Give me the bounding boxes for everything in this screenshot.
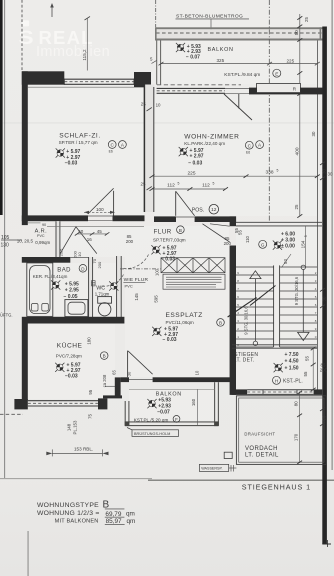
svg-text:53: 53 (283, 259, 288, 264)
svg-text:10: 10 (77, 252, 82, 257)
svg-text:45: 45 (97, 229, 103, 234)
svg-text:E6: E6 (246, 151, 250, 155)
svg-text:− 0.03: − 0.03 (163, 337, 177, 343)
svg-text:ST-BETON-BLUMENTROG: ST-BETON-BLUMENTROG (176, 13, 243, 19)
balcony floor dashed edge (157, 84, 241, 86)
svg-text:170: 170 (293, 433, 298, 441)
svg-text:E: E (275, 71, 278, 77)
svg-text:SP.TER/7,03qm: SP.TER/7,03qm (153, 238, 186, 243)
wc door swing dashed arc (100, 275, 124, 287)
svg-text:VORDACH: VORDACH (245, 446, 278, 452)
svg-text:KST.PL./5,20 qm: KST.PL./5,20 qm (134, 417, 169, 422)
balkon inner dim 160 (197, 390, 199, 426)
balcony door threshold (225, 87, 249, 89)
wie flur door swing dashed arc (124, 255, 149, 269)
küche east wall (115, 377, 121, 396)
svg-text:± 0.00: ± 0.00 (281, 243, 295, 249)
svg-text:BRÜSTUNGS-HOLM: BRÜSTUNGS-HOLM (134, 432, 170, 436)
svg-text:KST.-PL.: KST.-PL. (283, 379, 303, 385)
circle A wohnzimmer (256, 141, 264, 149)
svg-text:−0.03: −0.03 (65, 373, 78, 379)
svg-text:KST.PL./9.84 qm: KST.PL./9.84 qm (224, 72, 260, 78)
svg-text:30: 30 (311, 131, 316, 136)
svg-text:338: 338 (265, 169, 273, 175)
svg-text:E6: E6 (109, 150, 113, 154)
wall bedroom/wohnzimmer (double line) (144, 85, 154, 213)
staircase top wall (double thin) (236, 221, 322, 223)
circle A bedroom (119, 141, 127, 149)
svg-text:+ 1.50: + 1.50 (285, 365, 299, 371)
küche elevation diamond (55, 363, 64, 372)
svg-text:B: B (179, 228, 182, 233)
svg-text:PL.153: PL.153 (72, 420, 77, 434)
svg-text:100: 100 (96, 207, 104, 212)
scan fold faint line (0, 122, 334, 125)
flur dim line 50 45 (77, 233, 107, 235)
svg-text:ca 208: ca 208 (102, 374, 107, 387)
svg-text:10: 10 (156, 103, 161, 108)
svg-text:25: 25 (141, 182, 146, 187)
balcony door swing hatch (224, 94, 252, 120)
top balcony left parapet (156, 40, 158, 84)
lined fixture below cupboard (163, 274, 225, 289)
svg-text:1,71qm: 1,71qm (95, 292, 110, 297)
svg-text:95: 95 (88, 389, 93, 394)
bedroom top wall solid left part (22, 71, 65, 84)
bedroom bottom wall left of door (22, 215, 88, 221)
svg-text:90: 90 (42, 223, 46, 227)
essplatz south wall (121, 377, 129, 382)
small box left of vordach (224, 452, 232, 458)
svg-text:WOHN-ZIMMER: WOHN-ZIMMER (184, 134, 239, 141)
svg-text:30: 30 (322, 415, 327, 420)
building right wall (solid) (322, 27, 327, 545)
svg-text:400: 400 (295, 147, 301, 155)
svg-text:112: 112 (202, 182, 210, 188)
interior dim line 2 (112,5 / 112,5) (152, 188, 226, 190)
bedroom elevation diamond (56, 148, 65, 157)
toilet (98, 297, 112, 304)
built-in cupboard with X (161, 258, 225, 273)
tick marks below vordach (229, 467, 237, 469)
circle C wohnzimmer (245, 141, 253, 149)
küche south window (28, 401, 98, 406)
svg-text:+ 7.50: + 7.50 (285, 352, 299, 358)
apartment entry door swing (203, 224, 230, 242)
svg-text:KER. FL./3,41qm: KER. FL./3,41qm (33, 274, 68, 279)
svg-text:PVC: PVC (37, 234, 45, 238)
svg-text:−0.07: −0.07 (157, 409, 170, 415)
circle H + KST.-PL. (273, 376, 281, 384)
svg-text:ÜFTG.: ÜFTG. (0, 313, 13, 318)
landing south wall with entrance glazing (232, 389, 248, 395)
wohnzimmer / flur bottom wall (154, 216, 176, 222)
stair section cut diagonal (228, 298, 257, 318)
svg-text:− 0.07: − 0.07 (186, 54, 200, 60)
vordach dim line 80 / 170 (299, 393, 301, 464)
svg-text:55: 55 (303, 371, 308, 376)
svg-text:12: 12 (211, 207, 217, 213)
WC east wall (116, 256, 121, 317)
svg-text:FLUR: FLUR (154, 228, 172, 235)
svg-text:BAD: BAD (57, 267, 71, 273)
stairs bottom wall (thin double) (232, 344, 317, 346)
balkon elevation diamond (147, 399, 156, 408)
balcony dim line 325 / 225 (161, 63, 317, 65)
leader tick from label to trough (210, 19, 212, 30)
svg-text:595: 595 (153, 295, 158, 303)
tread numbers right flight (315, 271, 317, 339)
stair elevation diamond (273, 241, 282, 250)
svg-text:−0.03: −0.03 (65, 160, 78, 166)
svg-text:225: 225 (287, 58, 295, 63)
wohnzimmer north window (157, 88, 225, 93)
svg-text:− 0.03: − 0.03 (188, 160, 202, 166)
wohnzimmer elevation diamond (179, 147, 188, 156)
svg-text:LT. DET.: LT. DET. (234, 357, 255, 363)
svg-text:100: 100 (154, 268, 159, 276)
svg-text:160: 160 (191, 398, 196, 406)
svg-text:25: 25 (294, 204, 299, 210)
svg-text:85,97: 85,97 (106, 518, 122, 525)
bedroom top wall solid right part (134, 72, 151, 87)
stair treads (236, 267, 317, 347)
BAD top wall (22, 257, 71, 263)
separator line above title block (0, 477, 152, 480)
dashed line bottom left (0, 413, 23, 415)
bedroom left exterior wall (22, 71, 28, 225)
svg-text:55: 55 (305, 356, 310, 361)
svg-text:75: 75 (88, 414, 93, 419)
küche SE jog walls (103, 395, 122, 398)
svg-text:25: 25 (304, 17, 309, 23)
svg-text:5: 5 (277, 168, 279, 172)
bedroom door leaf and swing (113, 191, 115, 217)
vertical dim 115,2 with line (86, 18, 88, 71)
dash-dot line above trough left end (155, 0, 157, 27)
svg-text:PVC/11,06qm: PVC/11,06qm (166, 320, 194, 325)
svg-text:Immobilien: Immobilien (36, 44, 110, 60)
küche south wall L foot (14, 399, 27, 409)
bottom balcony parapet (125, 382, 218, 425)
svg-text:ESSPLATZ: ESSPLATZ (166, 312, 203, 319)
section dash-dot line x=269 (268, 0, 270, 222)
svg-text:WOHNUNG 1/2/3 =: WOHNUNG 1/2/3 = (37, 510, 100, 517)
down arrow right flight (301, 265, 305, 269)
central stringer (273, 265, 275, 347)
svg-text:16: 16 (87, 237, 93, 242)
svg-text:325: 325 (217, 58, 225, 63)
wohnzimmer top wall solid part (249, 88, 323, 95)
washbasin (65, 300, 88, 317)
svg-text:154: 154 (301, 240, 306, 248)
WASSERSP. boxed label (199, 464, 228, 471)
svg-text:225: 225 (187, 170, 195, 176)
circle C bedroom (108, 141, 116, 149)
svg-text:180: 180 (87, 337, 92, 345)
svg-text:+ 4.50: + 4.50 (285, 358, 299, 364)
svg-text:30: 30 (322, 296, 327, 301)
concrete flower trough band (155, 27, 323, 29)
svg-text:B: B (103, 354, 106, 359)
up arrow left flight (250, 271, 261, 279)
küche south wall end block (98, 398, 107, 409)
bedroom north window (64, 79, 134, 85)
right margin dimension line (299, 14, 301, 216)
landing side dims 55 55 (312, 349, 314, 390)
svg-text:DRAUFSICHT: DRAUFSICHT (244, 431, 275, 436)
svg-text:0,99qm: 0,99qm (35, 240, 50, 245)
svg-text:WASSERSP.: WASSERSP. (201, 467, 222, 471)
right wall inner face line (316, 41, 318, 390)
stair west wall lower part (230, 353, 236, 395)
property boundary dashed line top-left (21, 0, 23, 71)
vordach (canopy) plan (236, 396, 326, 465)
svg-text:MIT BALKONEN: MIT BALKONEN (55, 518, 99, 524)
svg-text:69,79: 69,79 (105, 511, 121, 518)
interior dim line 1 (225 / 338,5) (152, 175, 317, 177)
bad elevation diamond (51, 280, 60, 289)
svg-text:LT. DETAIL: LT. DETAIL (245, 453, 279, 459)
bottom left short vertical line (27, 531, 30, 576)
svg-text:5: 5 (213, 181, 215, 185)
svg-text:KÜCHE: KÜCHE (57, 341, 83, 349)
svg-text:200: 200 (224, 241, 232, 246)
svg-text:65: 65 (111, 370, 116, 375)
svg-text:110: 110 (245, 235, 250, 243)
svg-text:55: 55 (237, 230, 242, 235)
svg-text:10, 20,5: 10, 20,5 (17, 239, 34, 244)
svg-text:30: 30 (328, 171, 333, 176)
flur elevation diamond (151, 245, 160, 254)
svg-text:200: 200 (97, 261, 102, 268)
tread numbers left flight (237, 271, 239, 347)
svg-text:30: 30 (322, 169, 327, 174)
WC label + diamond (92, 281, 96, 286)
circle E (273, 69, 281, 77)
svg-text:WOHNUNGSTYPE: WOHNUNGSTYPE (37, 502, 99, 509)
dash-dot centre line to wc (120, 268, 161, 270)
svg-text:200: 200 (126, 239, 134, 244)
frame line left (3, 0, 6, 478)
svg-text:STIEGENHAUS 1: STIEGENHAUS 1 (242, 483, 311, 492)
svg-text:200: 200 (320, 367, 328, 372)
svg-text:9 STG. 30/16,6: 9 STG. 30/16,6 (294, 276, 299, 305)
svg-text:25: 25 (141, 102, 146, 107)
svg-text:130: 130 (1, 242, 10, 248)
svg-text:B: B (219, 321, 222, 326)
bedroom bottom wall right of door (113, 215, 145, 221)
svg-text:50: 50 (294, 30, 299, 36)
A.R. right partition (56, 221, 60, 257)
stair west wall (230, 216, 236, 226)
svg-text:148: 148 (66, 423, 71, 431)
balcony door küche/essplatz leaf + swing (127, 351, 129, 378)
svg-text:+ 2.97: + 2.97 (190, 154, 204, 160)
svg-text:30: 30 (126, 371, 131, 376)
small dimension arrow top-left (51, 5, 53, 18)
svg-text:S: S (19, 27, 34, 48)
svg-text:qm: qm (127, 518, 136, 525)
svg-text:qm: qm (126, 510, 135, 517)
svg-text:5: 5 (178, 181, 180, 185)
BAD/WC partition (88, 257, 93, 317)
dim 53 diagonal (282, 254, 292, 268)
svg-text:PVC/7,28qm: PVC/7,28qm (56, 354, 82, 359)
BAD bottom wall (22, 317, 125, 324)
svg-text:10: 10 (194, 370, 199, 375)
R shaft box (257, 83, 301, 92)
svg-text:9 STG. 30/16,6: 9 STG. 30/16,6 (243, 306, 248, 335)
svg-text:50: 50 (78, 229, 84, 234)
svg-text:POS.: POS. (192, 208, 204, 214)
svg-text:SP.TER / 15,77 qm: SP.TER / 15,77 qm (59, 140, 98, 145)
svg-text:BALKON: BALKON (208, 47, 234, 53)
door width dim 100 (84, 211, 115, 213)
svg-text:80: 80 (293, 401, 298, 406)
svg-text:PVC: PVC (125, 284, 133, 289)
svg-text:145: 145 (134, 293, 139, 301)
svg-text:− 0.05: − 0.05 (64, 294, 78, 300)
left black margin strip (0, 0, 3, 215)
essplatz elevation diamond (152, 327, 161, 336)
lighter paper inside rooms (28, 41, 317, 422)
svg-text:SCHLAF-ZI.: SCHLAF-ZI. (59, 133, 100, 140)
BRÜSTUNGS-HOLM boxed label (132, 430, 179, 437)
svg-text:153 RBL.: 153 RBL. (74, 446, 93, 451)
right wall foot marks bottom right (322, 543, 331, 545)
svg-text:H: H (275, 378, 278, 383)
svg-text:112: 112 (167, 182, 175, 188)
bathtub (27, 263, 53, 317)
svg-text:20,5: 20,5 (59, 248, 64, 257)
A.R./flur door swings V (60, 227, 76, 254)
watermark logo s REAL Immobilien (19, 20, 111, 60)
svg-text:+ 2.95: + 2.95 (65, 287, 79, 293)
küche left wall (22, 324, 28, 401)
svg-text:KL.PARK./22,40 qm: KL.PARK./22,40 qm (184, 141, 225, 146)
balcony elevation diamond (176, 43, 185, 52)
wohnzimmer door leaf and swing (175, 191, 177, 216)
right scan edge line (332, 0, 333, 470)
svg-text:115,2: 115,2 (82, 49, 87, 61)
svg-text:F: F (175, 417, 178, 422)
svg-text:G: G (261, 242, 265, 247)
